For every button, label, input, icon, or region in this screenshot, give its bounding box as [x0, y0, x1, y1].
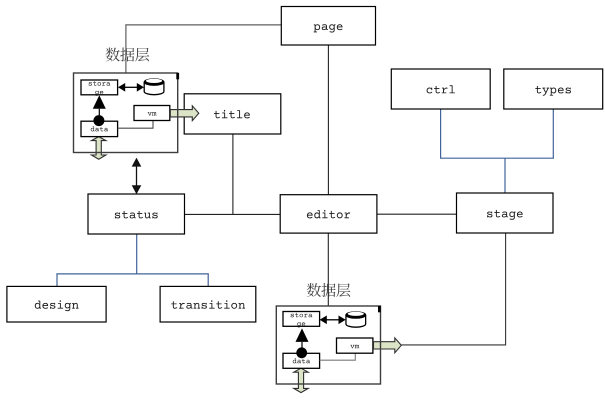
box transition	[160, 286, 256, 322]
wire editor to stage	[377, 213, 457, 215]
double arrow storage-cylinder (datalayer1)	[118, 83, 144, 92]
wire ctrl-types horizontal (blue)	[440, 157, 554, 159]
vertical double block arrow (datalayer2)	[294, 368, 308, 392]
box title	[184, 94, 281, 134]
wire types drop (blue)	[552, 109, 554, 158]
corner mark datalayer2	[378, 306, 381, 312]
label 数据层 (datalayer1)	[106, 48, 150, 62]
box status	[88, 194, 185, 234]
wire drop to design (blue)	[56, 274, 58, 287]
filled circle node (datalayer1)	[93, 115, 104, 126]
stem line triangle-circle (datalayer2)	[301, 342, 303, 348]
wire title drop to status-editor wire	[232, 134, 234, 214]
wire drop to stage (blue)	[504, 158, 506, 193]
wire editor to datalayer2	[327, 233, 329, 306]
wire status drop (blue)	[136, 234, 138, 274]
box design	[7, 286, 106, 322]
outer frame datalayer1	[74, 73, 178, 153]
box ctrl	[391, 69, 490, 109]
block arrow vm to title (datalayer1)	[170, 106, 199, 121]
box storage (datalayer2)	[283, 312, 320, 327]
outer frame datalayer2	[276, 306, 380, 384]
wire ctrl drop (blue)	[440, 109, 442, 158]
box data (datalayer1)	[81, 121, 118, 136]
wire data to vm (datalayer1)	[118, 121, 153, 129]
box vm (datalayer2)	[337, 338, 373, 353]
box editor	[280, 195, 377, 233]
wire status to editor	[185, 213, 281, 215]
wire drop to transition (blue)	[207, 274, 209, 287]
block arrow vm to stage wire (datalayer2)	[374, 338, 402, 353]
vertical double block arrow (datalayer1)	[92, 137, 106, 160]
wire page to editor	[327, 45, 329, 195]
datalayer2 group	[276, 283, 401, 393]
double arrow storage-cylinder (datalayer2)	[320, 316, 346, 325]
wire page to datalayer1 (elbow)	[126, 25, 281, 73]
filled triangle up (datalayer2)	[296, 328, 309, 342]
box storage (datalayer1)	[81, 80, 118, 95]
box types	[504, 69, 603, 109]
wire design-transition horizontal (blue)	[56, 273, 208, 275]
wire stage to datalayer2 arrow (elbow)	[401, 233, 505, 345]
cylinder database (datalayer2)	[346, 312, 366, 328]
label 数据层 (datalayer2)	[307, 283, 351, 297]
filled circle node (datalayer2)	[296, 347, 307, 358]
box stage	[457, 193, 554, 233]
box data (datalayer2)	[283, 353, 320, 368]
filled triangle up (datalayer1)	[93, 95, 106, 109]
box vm (datalayer1)	[134, 106, 170, 121]
thin double arrow datalayer1 to status	[132, 158, 142, 195]
cylinder database (datalayer1)	[144, 79, 164, 95]
datalayer1 group	[74, 48, 199, 160]
corner mark datalayer1	[176, 73, 179, 79]
stem line triangle-circle (datalayer1)	[98, 109, 100, 116]
box page	[281, 7, 375, 46]
wire data to vm (datalayer2)	[320, 353, 356, 360]
